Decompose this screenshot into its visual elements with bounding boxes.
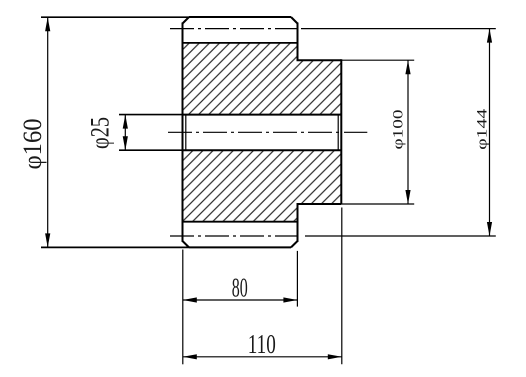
dim 80 extension right [296, 251, 298, 307]
dim 160 arrow top [45, 17, 50, 31]
svg-text:φ25: φ25 [85, 117, 114, 149]
gear right edge lower [297, 203, 299, 242]
dim 25 line [124, 115, 126, 151]
dim 110 arrow right [328, 354, 342, 359]
bore top edge [183, 114, 342, 116]
gear chamfer top-left [183, 17, 190, 24]
dim 25 extension top [119, 114, 183, 116]
gear chamfer top-right [291, 17, 298, 24]
gear top edge [189, 16, 291, 18]
dim 25 arrow top [123, 115, 128, 129]
centerline axis [168, 131, 342, 133]
gear bottom edge [189, 246, 291, 248]
gear chamfer bottom-left [183, 241, 190, 247]
dim 100 line [407, 60, 409, 204]
dim 100 extension top [341, 59, 414, 61]
gear left edge [182, 23, 184, 242]
dim 80 arrow right [283, 297, 297, 302]
svg-text:110: 110 [248, 329, 276, 359]
dim 80 arrow left [183, 297, 197, 302]
dim 160 arrow bottom [45, 233, 50, 247]
pitch line bottom [170, 235, 298, 237]
svg-text:80: 80 [232, 273, 248, 303]
svg-text:φ144: φ144 [475, 108, 491, 150]
svg-text:φ160: φ160 [18, 119, 47, 170]
pitch extension line bottom [305, 235, 496, 237]
dim 110 extension right [341, 208, 343, 365]
dim 160 extension top [41, 16, 189, 18]
dim 144 arrow bottom [487, 222, 492, 236]
gear root line top [183, 42, 298, 44]
gear root line bottom [183, 221, 298, 223]
hub top edge [297, 59, 342, 61]
svg-text:φ100: φ100 [391, 110, 407, 150]
hatch section upper [183, 43, 342, 115]
bore chamfer right [337, 115, 339, 151]
dim 144 arrow top [487, 29, 492, 43]
bore chamfer left [185, 115, 187, 151]
dim 100 arrow bottom [405, 190, 410, 204]
bore bottom edge [183, 149, 342, 151]
hub bottom edge [297, 203, 342, 205]
dim 100 extension bottom [341, 203, 414, 205]
dim 80 line [183, 299, 298, 301]
dim 80 extension left [182, 250, 184, 365]
pitch line top [170, 28, 298, 30]
gear chamfer bottom-right [291, 241, 298, 247]
dim 25 arrow bottom [123, 136, 128, 150]
dim 160 line [47, 17, 49, 247]
hatch section lower [183, 150, 342, 222]
dim 25 extension bottom [119, 149, 183, 151]
dim 144 line [489, 29, 491, 236]
dim 160 extension bottom [41, 246, 189, 248]
gear right edge upper [297, 23, 299, 61]
dim 110 arrow left [183, 354, 197, 359]
hub right edge [340, 59, 342, 204]
dim 100 arrow top [405, 60, 410, 74]
dim 110 line [183, 356, 342, 358]
pitch extension line top [301, 28, 496, 30]
